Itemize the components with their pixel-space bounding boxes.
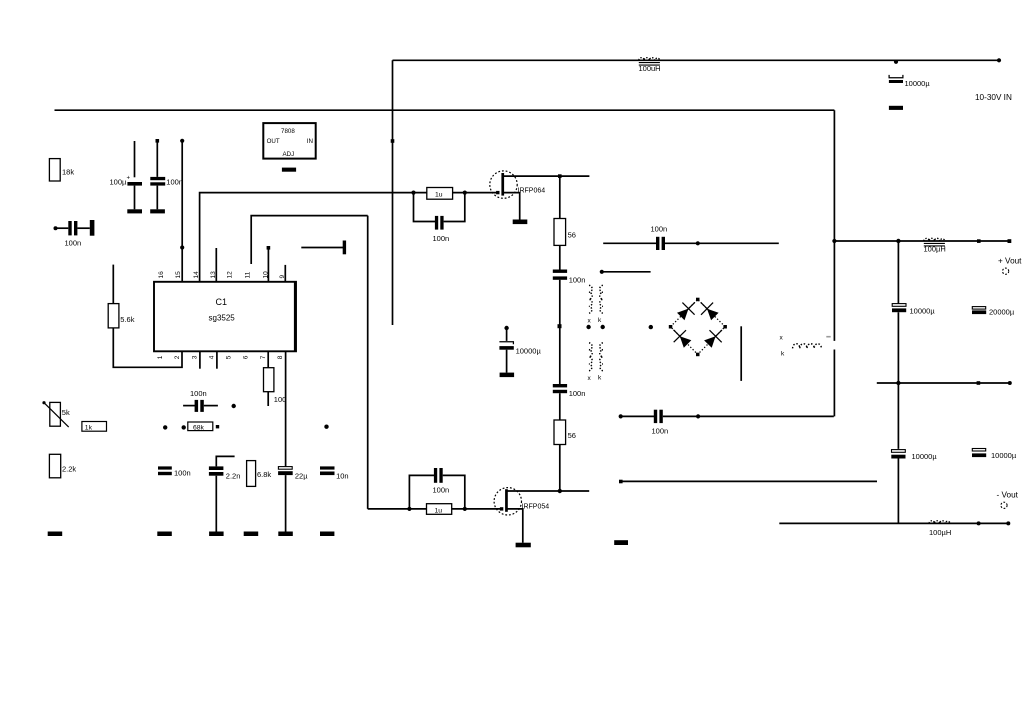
wire pin2 to 5.6k — [113, 328, 182, 367]
resistor R 68k — [188, 422, 213, 431]
wire snubber bottom — [559, 445, 561, 492]
wire pin3 stub — [199, 351, 201, 368]
node square dot on vertical — [391, 139, 395, 143]
svg-text:2.2k: 2.2k — [62, 465, 76, 474]
capacitor 100n output — [652, 410, 834, 436]
wire pin11 net corner — [251, 216, 368, 264]
svg-text:IN: IN — [307, 138, 313, 145]
svg-text:15: 15 — [175, 271, 182, 279]
capacitor 10000u floating bottom — [972, 449, 1017, 461]
node junction rail at left drop — [832, 239, 836, 243]
node dot feedback row left — [163, 425, 167, 429]
node square dot +V rail end — [1008, 239, 1012, 243]
resistor R 1k — [82, 422, 107, 432]
svg-text:100n: 100n — [65, 239, 82, 248]
wire pin7 stub — [267, 351, 269, 367]
capacitor 10000u center tap — [499, 326, 541, 373]
svg-text:100n: 100n — [569, 389, 586, 398]
node gray pin dash — [826, 336, 830, 338]
svg-text:56: 56 — [568, 230, 576, 239]
svg-text:OUT: OUT — [267, 138, 280, 145]
resistor R 18k — [49, 159, 74, 181]
capacitor 10000u input — [889, 75, 930, 88]
wire top supply rail — [393, 59, 1000, 61]
svg-text:10n: 10n — [336, 471, 349, 480]
svg-text:22µ: 22µ — [295, 471, 308, 480]
wire pin11 drop vertical — [367, 216, 369, 509]
svg-text:2: 2 — [174, 355, 181, 359]
potentiometer R 5k — [42, 401, 70, 427]
pin labels bottom row — [157, 355, 284, 359]
wire second rail — [55, 109, 835, 111]
wire output mid row — [619, 414, 655, 418]
svg-text:7: 7 — [260, 355, 267, 359]
ground under 22u — [278, 532, 293, 537]
svg-text:100n: 100n — [651, 225, 668, 234]
capacitor 100n gate bottom — [409, 468, 464, 509]
transistor Q2 IRFP054 — [494, 488, 589, 543]
wire output center vertical upper — [897, 241, 899, 303]
wire secondary top stub — [600, 270, 651, 274]
node antenna bar — [343, 241, 346, 255]
capacitor 2.2n timing — [209, 456, 241, 531]
ground under Q1 source — [513, 220, 528, 225]
wire pin14 to gate row — [200, 193, 414, 282]
wire vertical from top rail — [392, 60, 394, 325]
svg-text:100µH: 100µH — [924, 245, 946, 254]
ground under 5k pot — [48, 532, 63, 537]
svg-text:100n: 100n — [433, 234, 450, 243]
node +Vout terminal circle — [1003, 268, 1009, 274]
svg-text:sg3525: sg3525 — [209, 314, 236, 323]
svg-text:100n: 100n — [433, 486, 450, 495]
svg-text:12: 12 — [227, 271, 234, 279]
ground under 10n — [320, 532, 334, 537]
svg-text:6: 6 — [243, 355, 250, 359]
svg-text:10000µ: 10000µ — [516, 346, 542, 355]
resistor R 6.8k — [247, 461, 272, 487]
wire pin4 stub — [216, 351, 218, 368]
svg-text:10000µ: 10000µ — [910, 307, 936, 316]
wire right of bridge — [740, 326, 742, 381]
resistor R 2.2k — [49, 454, 76, 478]
svg-text:5: 5 — [225, 355, 232, 359]
capacitor 22u soft start — [278, 467, 308, 532]
svg-text:100n: 100n — [190, 389, 207, 398]
regulator U2 7808 — [263, 123, 315, 159]
pin labels top row — [158, 271, 286, 279]
resistor R 1u top — [427, 188, 453, 200]
transformer T1 lower right winding — [600, 343, 603, 371]
svg-text:10000µ: 10000µ — [905, 79, 931, 88]
svg-text:ADJ: ADJ — [283, 151, 295, 158]
resistor R 1u bottom — [409, 504, 501, 515]
svg-text:56: 56 — [568, 431, 576, 440]
svg-text:68k: 68k — [193, 424, 205, 431]
node junction right of 1u bottom — [463, 507, 467, 511]
node dot minus rail end — [1006, 521, 1010, 525]
svg-text:1: 1 — [157, 355, 164, 359]
node -Vout terminal circle — [1001, 502, 1007, 508]
node junction left of 1u — [411, 191, 415, 195]
ground under input cap — [889, 106, 903, 110]
node junction +V rail — [896, 239, 900, 243]
capacitor 100n soft start — [158, 466, 191, 477]
diode D2 right-top — [701, 302, 719, 320]
svg-text:10000µ: 10000µ — [912, 452, 938, 461]
IC U1 sg3525 — [154, 282, 296, 352]
node junction right of 1u — [463, 191, 467, 195]
svg-text:7808: 7808 — [281, 128, 295, 135]
ground lower left — [614, 540, 628, 545]
svg-text:5k: 5k — [62, 408, 70, 417]
ground under 100u — [127, 209, 142, 213]
node junction zero rail — [896, 381, 900, 385]
ground under 2.2n — [209, 532, 224, 537]
transformer T1 upper left winding — [589, 285, 592, 313]
svg-text:100µH: 100µH — [929, 528, 951, 537]
svg-text:10000µ: 10000µ — [991, 451, 1017, 460]
wire minus rail bottom — [779, 522, 1008, 524]
wire +V output rail — [834, 240, 1010, 242]
wire snubber mid3 — [559, 393, 561, 420]
node dot zero rail end — [1008, 381, 1012, 385]
node top rail right end — [997, 58, 1001, 62]
ground under 6.8k — [244, 532, 259, 537]
svg-text:5.6k: 5.6k — [120, 315, 134, 324]
svg-text:3: 3 — [191, 355, 198, 359]
node snubber center — [558, 324, 562, 328]
transformer T1 lower left winding — [589, 343, 592, 371]
wire pin13 stub — [215, 248, 217, 282]
svg-text:11: 11 — [245, 271, 252, 278]
svg-text:100: 100 — [274, 395, 287, 404]
capacitor 100u vcc — [110, 141, 143, 209]
node square dot +V rail — [977, 239, 981, 243]
inductor L1 100uH — [639, 58, 661, 73]
wire right drop lower segment — [833, 350, 835, 417]
node dot minus rail — [977, 521, 981, 525]
wire output center vertical mid — [897, 312, 899, 449]
wire lower isolated row — [619, 480, 877, 484]
wire bottom gate row — [368, 508, 410, 510]
svg-text:100n: 100n — [652, 427, 669, 436]
capacitor 100n left input — [54, 220, 95, 248]
svg-text:6.8k: 6.8k — [257, 470, 271, 479]
svg-text:20000µ: 20000µ — [989, 308, 1015, 317]
svg-text:10-30V IN: 10-30V IN — [975, 93, 1012, 102]
svg-text:1u: 1u — [435, 507, 443, 514]
ground under Q2 source — [516, 543, 531, 548]
wire snubber top — [559, 176, 561, 218]
ground under center tap cap — [500, 373, 514, 378]
wire antenna tap — [301, 247, 343, 249]
wire snubber mid2 — [559, 280, 561, 384]
wire gate row top — [414, 192, 498, 194]
transistor Q1 IRFP064 — [490, 171, 590, 220]
wire pin8 to 22u — [285, 351, 287, 466]
inductor L2 100uH output plus — [924, 238, 946, 253]
wire zero volt rail — [877, 382, 1010, 384]
wire pin10 stub — [267, 246, 271, 282]
resistor R 56 bottom — [554, 420, 576, 445]
node center tap dot left — [586, 325, 590, 329]
capacitor 100n coupling top — [603, 225, 779, 251]
svg-text:100uH: 100uH — [639, 64, 661, 73]
capacitor 100n snubber top — [553, 270, 586, 285]
svg-text:100n: 100n — [166, 178, 183, 187]
svg-text:100n: 100n — [569, 276, 586, 285]
capacitor 10n — [320, 466, 349, 480]
svg-text:4: 4 — [208, 355, 215, 359]
diode D1 left-top — [677, 302, 695, 320]
resistor R 56 top — [554, 219, 576, 246]
svg-text:16: 16 — [158, 271, 165, 279]
ground under 7808 — [282, 168, 296, 172]
ground under 100n soft start — [157, 532, 172, 537]
capacitor 100n error amp — [183, 389, 218, 412]
capacitor 100n vcc — [150, 139, 183, 209]
svg-text:2.2n: 2.2n — [226, 472, 241, 481]
svg-text:+: + — [127, 176, 131, 182]
diode D4 bottom-right — [704, 330, 722, 348]
resistor R 5.6k — [108, 265, 135, 328]
node junction left of 1u bottom — [407, 507, 411, 511]
svg-text:1u: 1u — [435, 191, 443, 198]
node dot right of 68k — [216, 425, 219, 428]
svg-text:100µ: 100µ — [110, 178, 128, 187]
node dot far right feedback row — [324, 425, 328, 429]
svg-text:- Vout: - Vout — [997, 491, 1019, 500]
capacitor 100n gate top — [414, 193, 465, 243]
svg-text:+ Vout: + Vout — [998, 257, 1022, 266]
node drain junction bottom — [558, 489, 562, 493]
diode D3 bottom-left — [674, 330, 692, 348]
svg-text:100n: 100n — [174, 468, 191, 477]
svg-text:1k: 1k — [85, 425, 93, 432]
node dot right of 100n — [232, 404, 236, 408]
svg-text:IRFP054: IRFP054 — [522, 504, 550, 511]
svg-text:18k: 18k — [62, 168, 74, 177]
node center tap dot right — [601, 325, 605, 329]
svg-text:C1: C1 — [216, 297, 228, 307]
wire pin9 stub — [284, 265, 286, 282]
svg-text:IRFP064: IRFP064 — [518, 187, 546, 194]
node junction at 10000u cap — [894, 60, 898, 64]
capacitor 20000u floating top — [972, 307, 1015, 317]
node drain junction top — [558, 174, 562, 178]
capacitor 100n snubber bottom — [553, 384, 586, 398]
wire right drop from second rail — [833, 110, 835, 341]
capacitor 10000u output bottom — [891, 450, 937, 461]
node isolated dot left of bridge — [649, 325, 653, 329]
diode bridge B1 — [669, 298, 727, 357]
transformer T1 upper right winding — [600, 285, 603, 313]
wire snubber mid1 — [559, 245, 561, 269]
inductor L3 100uH output minus — [929, 521, 951, 537]
wire pin15 vertical — [180, 139, 184, 282]
wire output center vertical lower — [897, 459, 899, 524]
transformer T2 winding horizontal — [793, 344, 822, 349]
resistor R 100 — [264, 368, 287, 406]
ground under 100n vcc — [150, 209, 165, 213]
node dot feedback row mid — [182, 425, 186, 429]
svg-text:8: 8 — [277, 355, 284, 359]
capacitor 10000u output top — [892, 304, 935, 316]
node square dot zero rail — [977, 381, 981, 385]
